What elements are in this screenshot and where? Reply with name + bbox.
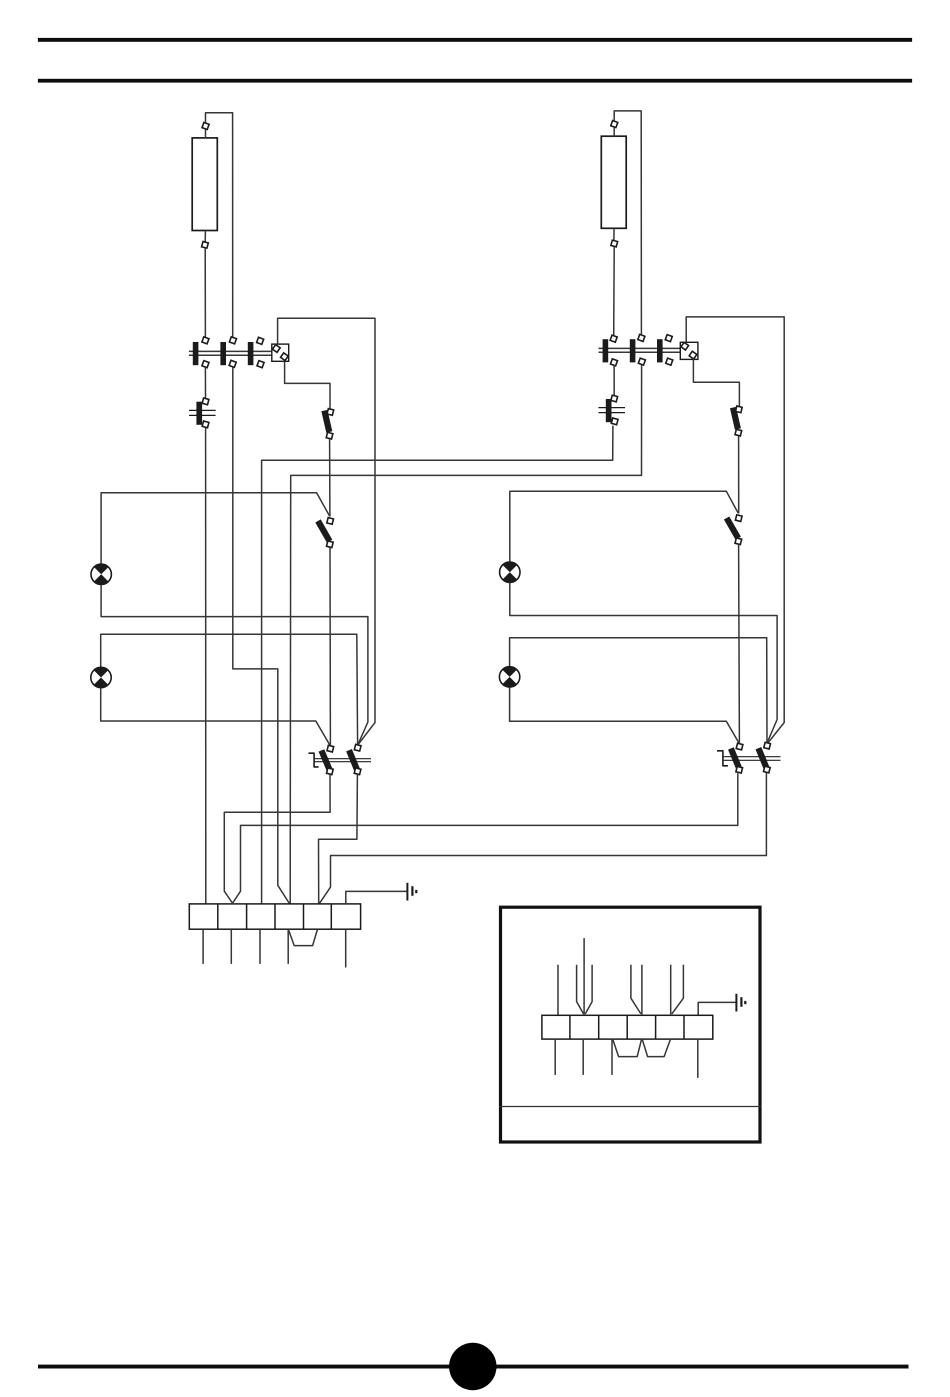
X2 cell 3 lead-out: [611, 1039, 613, 1075]
R1 bottom pin connector: [202, 231, 209, 249]
TB1 coupler box: [272, 344, 289, 361]
wire F1 to bottom terminal strip X1 cell 1: [205, 428, 207, 904]
X1 cell 6 lead-out: [345, 929, 347, 967]
TB2 terminal 1 top connector: [610, 335, 617, 342]
wire lamp L3 bottom loop to S6 pole 2: [510, 583, 777, 742]
X1 cell 1 lead-out: [202, 929, 204, 964]
TB2 contact bar 2: [630, 339, 636, 362]
wire R1 bottom to TB1 terminal 1: [204, 248, 206, 337]
X1 jumper loop cells 4-5: [288, 930, 317, 946]
X1 cell 3 lead-out: [259, 929, 261, 964]
terminal strip X1: [189, 904, 360, 929]
TB1 terminal 2 bottom connector: [229, 360, 236, 367]
wire TB1 terminal 2 to X1 cell 4: [233, 367, 289, 903]
lamp L3: [500, 562, 520, 582]
wire S6 pole 1 to X1 cell 2 (right, net C): [233, 773, 738, 903]
X1 cell 4 lead-out: [287, 929, 289, 964]
wire S6 pole 2 to X1 cell 5 (right, net D): [319, 773, 766, 904]
TB2 terminal 2 bottom connector: [638, 358, 645, 365]
TB2 contact bar 3: [657, 339, 663, 362]
wire TB1 box bottom to switch S1: [285, 361, 330, 409]
lamp L4: [499, 667, 519, 687]
inset arrow into X2 cell 2: [577, 938, 593, 1014]
inset earth symbol E2: [736, 994, 745, 1012]
lamp L2: [91, 667, 111, 687]
switch S3: [733, 406, 742, 436]
TB2 terminal 3 top connector: [665, 335, 672, 342]
TB2 terminal 2 top connector: [638, 334, 645, 341]
R2 bottom pin connector: [611, 228, 618, 247]
S5 actuator bracket: [309, 753, 319, 767]
wire lamp L1 top loop to S2: [101, 493, 330, 564]
wire S4 to double switch S6 pole 1: [738, 545, 741, 743]
earth symbol E1: [407, 883, 416, 901]
TB2 terminal 1 bottom connector: [610, 359, 617, 366]
wire TB2 box bottom to switch S3: [693, 359, 739, 406]
TB2 coupler box: [680, 342, 698, 359]
wire S5 pole 2 to X1 cell 5 (left): [319, 775, 358, 904]
TB1 contact bar 3: [248, 342, 254, 365]
inset wire X2 cell 6 to earth: [698, 1002, 736, 1015]
terminal block TB1 bus lines: [189, 351, 272, 355]
wire TB2 terminal 1 to F2: [613, 366, 615, 396]
TB2 contact bar 1: [603, 339, 609, 362]
suppressor F1: [189, 398, 216, 428]
inset detail box: [499, 907, 761, 1142]
TB1 contact bar 2: [220, 342, 226, 365]
S5 pole 2: [349, 744, 361, 774]
X2 cell 1 lead-out: [554, 1039, 556, 1075]
wire lamp L2 bottom loop to S5 pole 1: [101, 688, 330, 746]
terminal block TB2 bus lines: [599, 348, 681, 352]
lamp L1: [91, 564, 111, 584]
wire R2 bottom to TB2 terminal 1: [613, 247, 616, 335]
X2 jumper loop cells 3-4: [613, 1040, 642, 1057]
inset terminal strip X2: [542, 1015, 713, 1039]
S6 actuator bracket: [717, 751, 728, 766]
X2 cell 6 lead-out: [697, 1039, 699, 1078]
X1 cell 2 lead-out: [230, 929, 232, 964]
wire TB2 terminal 2 to X1 cell 4 (net B): [290, 365, 641, 903]
inset wire into X2 cell 1: [557, 965, 559, 1016]
wire lamp L4 top loop to S6 pole 2: [510, 638, 767, 742]
S6 pole 2: [758, 742, 770, 773]
wire F2 to X1 cell 3 (net A): [262, 426, 613, 904]
X2 cell 2 lead-out: [582, 1039, 584, 1075]
R1 top pin connector: [202, 122, 209, 138]
wire S1 to switch S2: [329, 439, 331, 517]
wire lamp L4 bottom loop to S6 pole 1: [510, 687, 740, 743]
wire lamp L2 top loop to S5 pole 2: [101, 634, 358, 744]
wire R2 top loop to TB2 terminal 2: [614, 111, 641, 335]
S5 mechanical link: [314, 759, 371, 762]
ballast resistor R1: [192, 138, 217, 231]
TB1 terminal 1 bottom connector: [202, 361, 209, 368]
S6 pole 1: [731, 743, 743, 773]
switch S2: [318, 518, 333, 548]
wire TB2 box top loop to S6 pole 2: [686, 317, 784, 743]
wire S3 to switch S4: [738, 436, 740, 514]
wire S2 to double switch S5 pole 1: [329, 548, 331, 745]
TB1 terminal 3 top connector: [257, 337, 264, 344]
wire TB1 terminal 1 to F1: [204, 368, 206, 399]
suppressor F2: [598, 395, 625, 425]
TB2 terminal 3 bottom connector: [666, 358, 673, 365]
X2 jumper loop cells 4-5: [642, 1040, 670, 1057]
TB1 terminal 3 bottom connector: [257, 361, 264, 368]
wire TB1 box top loop to S5 pole 2: [278, 318, 375, 744]
ballast resistor R2: [601, 136, 626, 228]
wire lamp L1 bottom loop to S5 pole 2: [101, 585, 368, 744]
switch S4: [727, 515, 742, 545]
S6 mechanical link: [723, 757, 781, 761]
wire R1 top loop to terminal block TB1 terminal 2: [206, 113, 233, 337]
inset arrow into X2 cell 4: [631, 965, 642, 1015]
R2 top pin connector: [611, 121, 618, 137]
switch S1: [324, 409, 333, 439]
TB1 terminal 1 top connector: [202, 337, 209, 344]
wire X1 cell 6 to earth: [346, 891, 407, 904]
wire S5 pole 1 to X1 cell 2 (left): [224, 775, 330, 903]
wire lamp L3 top loop to S4: [510, 491, 739, 562]
S5 pole 1: [321, 745, 333, 774]
inset arrow into X2 cell 5: [671, 965, 684, 1015]
TB1 contact bar 1: [193, 342, 199, 365]
TB1 terminal 2 top connector: [229, 337, 236, 344]
